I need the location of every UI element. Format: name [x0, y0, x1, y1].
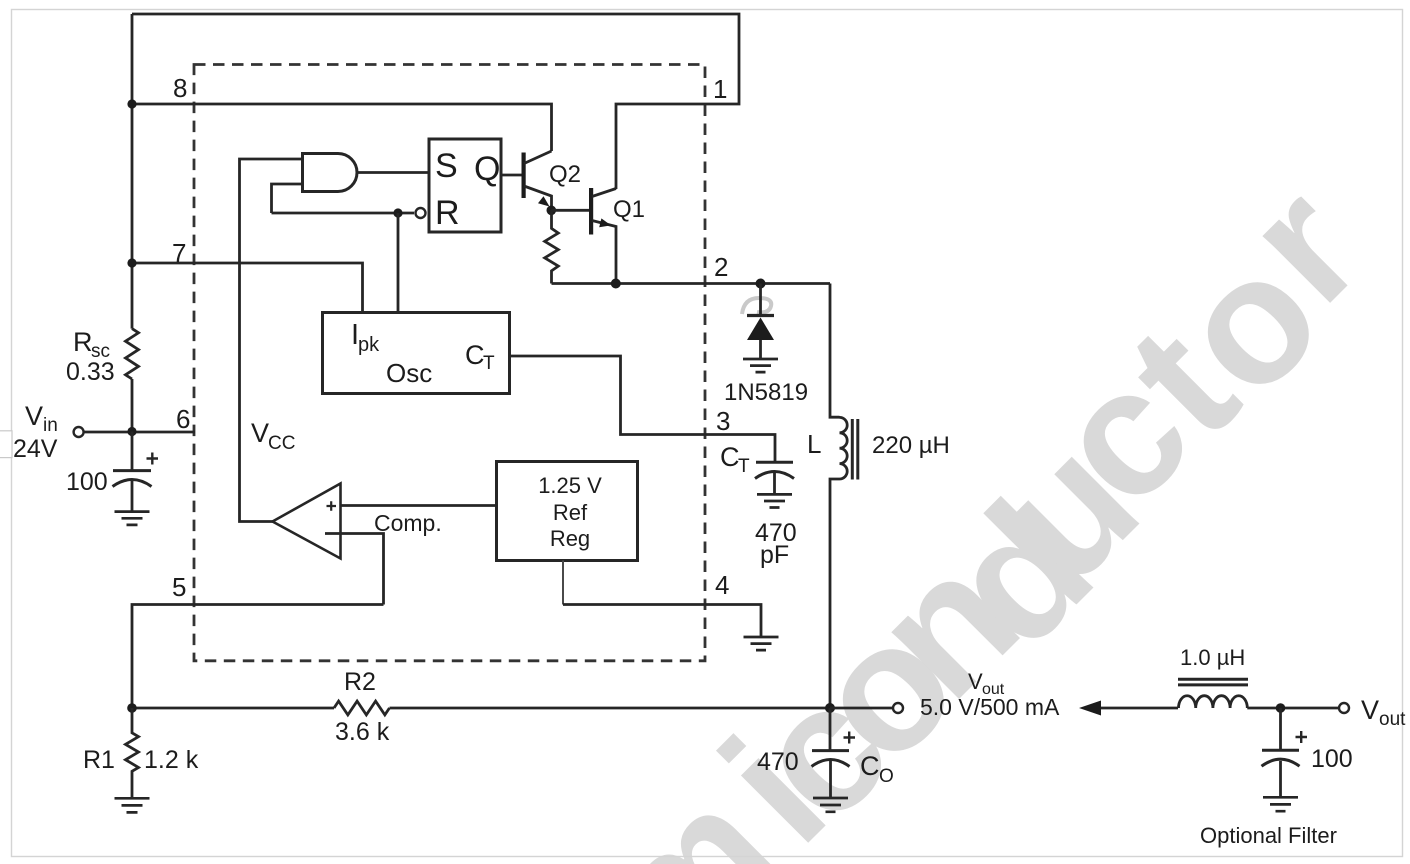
resistor Q2 emitter — [545, 210, 559, 284]
node dot bottom left — [127, 703, 137, 713]
inductor filter 1.0uH — [1179, 696, 1248, 708]
wire top loop pin8 rail to pin1 — [132, 14, 739, 189]
svg-text:T: T — [738, 456, 750, 477]
transistor Q2 — [522, 153, 526, 199]
svg-text:5.0 V/500 mA: 5.0 V/500 mA — [920, 694, 1060, 720]
svg-text:100: 100 — [1311, 745, 1353, 773]
latch box S/R — [429, 139, 501, 232]
svg-text:R: R — [435, 194, 460, 232]
svg-text:Comp.: Comp. — [374, 510, 442, 536]
wire pin 2 — [552, 282, 831, 285]
svg-text:Q1: Q1 — [613, 196, 645, 223]
watermark Semiconductor — [559, 148, 1398, 864]
inductor L 220uH — [830, 284, 840, 418]
svg-text:out: out — [1379, 709, 1406, 730]
plus sign filter cap — [1296, 731, 1308, 743]
svg-text:3: 3 — [716, 406, 730, 436]
svg-text:pk: pk — [358, 334, 380, 356]
filter core lines — [1178, 679, 1248, 685]
svg-text:R1: R1 — [83, 746, 115, 774]
svg-text:L: L — [807, 429, 821, 459]
plus sign comparator — [327, 501, 337, 511]
svg-text:2: 2 — [714, 252, 728, 282]
wire CT to pin 3 — [510, 356, 776, 462]
wire Q output to Q2 base — [501, 174, 522, 177]
capacitor CT — [756, 461, 793, 464]
ground filter cap — [1263, 797, 1298, 811]
resistor R1 — [126, 708, 139, 798]
wire pin 6 — [84, 431, 195, 434]
oscillator box — [323, 313, 510, 394]
wire comparator minus input — [325, 534, 384, 605]
svg-text:7: 7 — [172, 238, 186, 268]
ground input cap — [115, 512, 150, 525]
R input bubble — [416, 208, 426, 218]
svg-text:Osc: Osc — [386, 358, 432, 388]
wire pin 7 to Osc — [132, 263, 363, 313]
svg-text:Reg: Reg — [550, 526, 590, 551]
node dot diode — [756, 279, 766, 289]
svg-text:pF: pF — [760, 541, 789, 569]
wire pin 8 — [132, 104, 552, 151]
wire bottom rail — [132, 707, 830, 710]
svg-text:1.25 V: 1.25 V — [538, 473, 602, 498]
node dot Q1 emitter — [611, 279, 621, 289]
white patch behind 24V on border — [0, 431, 12, 458]
node dot Vin — [127, 427, 136, 436]
wire ref to pin 4 — [562, 561, 564, 605]
node dot pin7 — [127, 258, 136, 267]
wire pin 5 — [132, 605, 384, 709]
svg-text:R: R — [73, 327, 93, 357]
svg-text:S: S — [435, 147, 458, 185]
ground pin 4 — [744, 637, 779, 650]
wire Vcc rail to comparator output — [240, 159, 303, 522]
capacitor CO — [829, 708, 832, 750]
capacitor 100 input — [131, 432, 134, 471]
node dot pin8 — [127, 99, 136, 108]
plus sign input cap — [147, 453, 159, 465]
comparator — [273, 484, 341, 559]
terminal Vin — [74, 427, 84, 437]
wire R node to Osc — [397, 213, 400, 313]
node dot filter — [1276, 703, 1286, 713]
svg-text:Ref: Ref — [553, 500, 588, 525]
svg-text:V: V — [251, 418, 269, 448]
svg-text:C: C — [465, 340, 485, 370]
svg-text:0.33: 0.33 — [66, 358, 115, 386]
svg-text:6: 6 — [176, 404, 190, 434]
plus sign CO — [844, 732, 856, 744]
svg-text:1.0 µH: 1.0 µH — [1180, 645, 1245, 670]
IC dashed boundary box — [194, 65, 705, 661]
svg-text:V: V — [968, 669, 983, 694]
resistor Rsc — [126, 329, 139, 379]
ground CT — [757, 494, 792, 507]
wire Q1 base — [551, 209, 589, 212]
svg-text:CC: CC — [268, 433, 295, 454]
svg-text:C: C — [860, 751, 880, 781]
svg-text:4: 4 — [715, 570, 729, 600]
terminal Vout right — [1339, 703, 1349, 713]
wire filter output — [1247, 707, 1338, 710]
svg-text:C: C — [720, 442, 740, 472]
svg-text:Q: Q — [474, 150, 500, 188]
svg-text:100: 100 — [66, 468, 108, 496]
wire left rail — [131, 14, 134, 432]
svg-text:220 µH: 220 µH — [872, 432, 950, 459]
AND gate U1 — [303, 154, 358, 192]
wire AND second input — [272, 184, 303, 213]
node dot output — [825, 703, 835, 713]
capacitor 100 filter — [1279, 708, 1282, 750]
watermark squiggle near diode — [742, 298, 771, 314]
svg-text:1: 1 — [713, 74, 727, 104]
node dot R line — [393, 208, 402, 217]
svg-text:O: O — [879, 766, 894, 787]
svg-text:470: 470 — [757, 748, 799, 776]
svg-text:in: in — [43, 415, 58, 436]
svg-text:5: 5 — [172, 572, 186, 602]
svg-text:3.6 k: 3.6 k — [335, 718, 390, 746]
node dot Q2 emitter — [547, 206, 557, 216]
transistor Q1 — [589, 188, 593, 235]
svg-text:1N5819: 1N5819 — [724, 379, 808, 406]
ground R1 — [115, 798, 150, 812]
reference box 1.25V Ref Reg — [497, 462, 638, 561]
svg-text:Optional Filter: Optional Filter — [1200, 823, 1337, 848]
inductor core lines — [852, 419, 858, 480]
ground CO — [813, 798, 848, 812]
svg-text:24V: 24V — [13, 435, 58, 463]
wire comparator plus input — [341, 504, 497, 507]
wire AND output to S — [357, 171, 429, 174]
svg-text:8: 8 — [173, 73, 187, 103]
svg-text:Q2: Q2 — [549, 161, 581, 188]
wire R line — [272, 212, 415, 215]
arrow to output — [1096, 707, 1178, 710]
ground diode — [743, 359, 778, 372]
resistor R2 — [334, 701, 389, 715]
svg-text:T: T — [483, 353, 495, 374]
wire output stub — [830, 707, 893, 710]
svg-text:R2: R2 — [344, 668, 376, 696]
terminal Vout mid — [893, 703, 903, 713]
diode 1N5819 — [759, 284, 762, 316]
svg-text:1.2 k: 1.2 k — [144, 746, 199, 774]
svg-text:V: V — [1361, 695, 1379, 725]
svg-text:V: V — [25, 401, 43, 431]
